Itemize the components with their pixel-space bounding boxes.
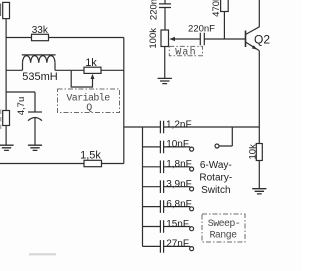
ground (4.7u) (28, 145, 42, 150)
box Variable Q (58, 89, 120, 113)
wire branch to 4.7u (6, 92, 35, 112)
capacitor 10nF (143, 141, 191, 154)
capacitor 6,8nF (143, 200, 191, 213)
svg-text:Q: Q (86, 103, 92, 114)
wire pot right (101, 69, 124, 71)
svg-text:470k: 470k (211, 0, 222, 17)
capacitor 220n (top, cropped) (159, 0, 171, 30)
svg-text:3,9nF: 3,9nF (166, 179, 192, 190)
svg-text:Sweep-: Sweep- (208, 219, 240, 230)
capacitor 220nF (200, 33, 204, 45)
ground (left resistor) (0, 145, 14, 150)
wire vertical mid (123, 38, 125, 164)
dashed annotation boxes (58, 46, 246, 242)
ground (10k) (252, 189, 266, 194)
box Sweep-Range (202, 214, 245, 242)
wire 33k row (6, 37, 124, 39)
capacitor 1,8nF (143, 161, 191, 174)
svg-text:33k: 33k (32, 25, 49, 36)
wire base (204, 38, 245, 40)
capacitor 27nF (143, 240, 191, 253)
switch wiper (215, 144, 219, 148)
svg-text:220n: 220n (148, 0, 159, 20)
wire bottom rail (0, 163, 124, 165)
edge artifact ticks (0, 4, 2, 17)
wire emitter down (258, 51, 260, 144)
resistor 470k (cropped) (221, 0, 229, 12)
svg-text:15nF: 15nF (166, 219, 189, 230)
svg-text:220nF: 220nF (188, 24, 215, 35)
svg-text:1,8nF: 1,8nF (166, 159, 192, 170)
resistor 10k (256, 144, 262, 161)
svg-text:10k: 10k (247, 144, 258, 160)
svg-text:1k: 1k (85, 57, 97, 69)
box Wah (169, 46, 202, 55)
wire left vertical (5, 19, 7, 111)
capacitor 3,9nF (143, 180, 191, 193)
svg-text:10nF: 10nF (166, 139, 189, 150)
svg-text:Range: Range (209, 230, 237, 241)
svg-text:Wah: Wah (175, 46, 197, 58)
svg-text:1,2nF: 1,2nF (166, 119, 192, 130)
resistor (top-left) (3, 2, 10, 18)
edge artifacts (scan remnants) (0, 110, 2, 130)
resistor 33k (32, 34, 49, 40)
wire pot wiper loop (71, 70, 92, 87)
svg-text:100k: 100k (148, 28, 159, 49)
svg-text:6-Way-: 6-Way- (200, 160, 232, 171)
svg-text:6,8nF: 6,8nF (166, 199, 192, 210)
capacitor 4,7u (28, 111, 42, 113)
ground (100k) (158, 78, 172, 83)
potentiometer 100k (161, 30, 169, 47)
wire capacitor bus (124, 127, 161, 246)
svg-text:4,7u: 4,7u (16, 97, 27, 116)
svg-text:535mH: 535mH (22, 71, 58, 83)
wiper arrow 100k (174, 38, 201, 40)
transistor Q2 (245, 31, 247, 48)
svg-text:27nF: 27nF (166, 239, 189, 250)
svg-text:Q2: Q2 (254, 33, 270, 47)
resistor lower-left (3, 111, 10, 126)
svg-text:Switch: Switch (201, 185, 230, 196)
inductor 535mH (23, 63, 56, 71)
potentiometer 1k (84, 67, 101, 73)
svg-text:1,5k: 1,5k (80, 150, 101, 162)
wire row1 to emitter node (164, 126, 260, 128)
resistor 1,5k (84, 160, 102, 166)
wire inductor row (6, 69, 84, 71)
capacitor 15nF (143, 220, 191, 233)
capacitor 1,2nF (160, 121, 163, 134)
svg-text:Rotary-: Rotary- (199, 173, 232, 184)
